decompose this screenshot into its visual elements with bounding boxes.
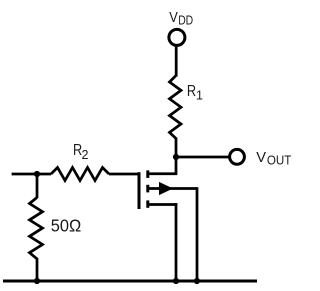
node input junction xyxy=(34,171,40,177)
node junction source-rail xyxy=(173,278,179,284)
resistor R2 xyxy=(51,168,109,181)
node junction 50ohm-rail xyxy=(34,278,40,284)
wire 50 ohm to ground rail xyxy=(36,258,39,281)
svg-text:2: 2 xyxy=(82,148,89,162)
wire input node down to 50 ohm resistor xyxy=(36,174,39,198)
node VDD terminal xyxy=(169,29,185,45)
node junction body-rail xyxy=(194,278,200,284)
transistor M1 gate bar xyxy=(138,172,141,209)
transistor M1 source stub wire xyxy=(148,203,178,206)
resistor R1 xyxy=(170,76,182,139)
transistor M1 body stub wire with arrow xyxy=(148,187,197,190)
resistor 50ohm xyxy=(30,198,43,259)
node VOUT terminal xyxy=(230,149,245,164)
node drain junction xyxy=(173,154,179,160)
transistor M1 drain contact tick xyxy=(146,170,149,178)
svg-text:1: 1 xyxy=(196,88,203,102)
wire VDD stem xyxy=(175,45,178,77)
svg-text:V: V xyxy=(169,9,178,26)
wire body to ground rail xyxy=(196,187,199,281)
wire R2 to gate xyxy=(109,173,140,176)
wire source to ground rail xyxy=(175,203,178,281)
svg-text:OUT: OUT xyxy=(267,153,292,168)
wire input left xyxy=(12,173,51,176)
transistor M1 body contact tick xyxy=(146,185,149,193)
svg-text:R: R xyxy=(187,83,196,100)
svg-text:V: V xyxy=(256,149,266,166)
wire drain down to transistor xyxy=(148,156,176,174)
ground rail wire xyxy=(3,279,257,282)
wire drain node to VOUT xyxy=(176,156,230,159)
svg-text:DD: DD xyxy=(178,13,193,27)
svg-text:50Ω: 50Ω xyxy=(51,216,82,236)
transistor M1 source contact tick xyxy=(146,200,149,207)
wire R1 to drain node xyxy=(175,138,178,158)
transistor M1 body arrow xyxy=(159,182,173,195)
